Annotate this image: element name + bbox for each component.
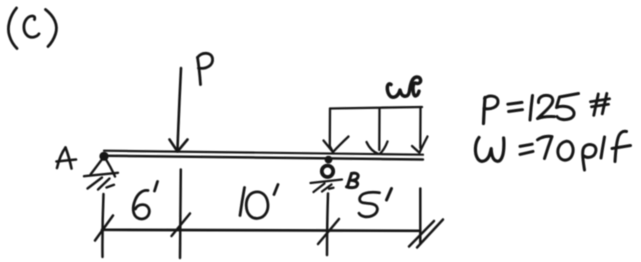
- dimension label 5': [359, 189, 392, 217]
- force arrow P: [170, 68, 188, 152]
- beam: [104, 151, 424, 160]
- dimension tick 1: [102, 194, 103, 257]
- roller support B: [311, 156, 343, 192]
- dimension label 10': [240, 185, 278, 219]
- tick 1 slash: [95, 216, 113, 241]
- break slash b: [417, 220, 443, 248]
- distributed load arrowheads: [324, 137, 428, 154]
- label B: [347, 173, 359, 188]
- annotation W = 70 plf: [475, 131, 630, 170]
- dimension line: [102, 230, 420, 231]
- tick 2 slash: [172, 214, 191, 237]
- break slash a: [409, 221, 434, 247]
- distributed load w outline: [330, 107, 422, 150]
- dimension label 6': [133, 182, 157, 219]
- label w (omega): [387, 77, 420, 97]
- dimension tick 2: [179, 170, 182, 259]
- label (C): [8, 8, 56, 49]
- tick 3 slash: [318, 219, 339, 244]
- node A: [57, 148, 77, 169]
- pin support A: [84, 152, 118, 190]
- dimension tick 3: [327, 194, 328, 256]
- dimension tick 4: [419, 189, 422, 244]
- annotation P = 125 #: [484, 94, 610, 124]
- label P: [198, 53, 213, 84]
